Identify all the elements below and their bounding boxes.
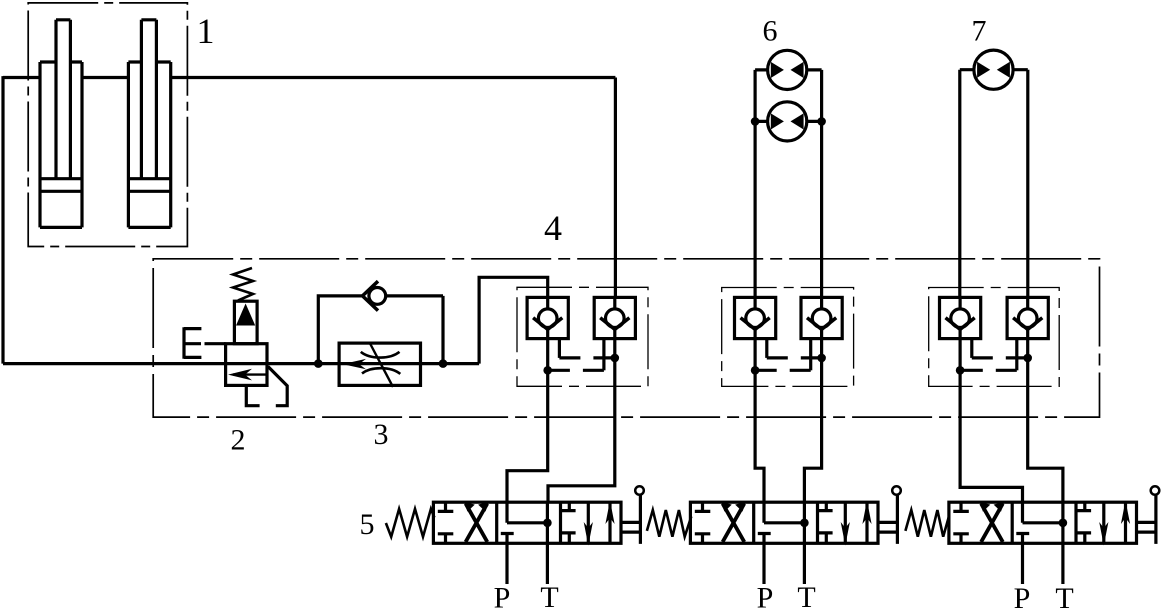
hydraulic motor 6b xyxy=(768,102,807,141)
DCV1 lever xyxy=(621,495,641,544)
DCV3 P stub xyxy=(1021,543,1024,584)
cylinder 1a body xyxy=(40,62,82,227)
svg-text:P: P xyxy=(494,582,511,614)
DCV1 body xyxy=(433,502,621,543)
node pair2 left xyxy=(751,366,760,375)
DCV3 center position paths xyxy=(1016,502,1063,544)
DCV2 right square arrows xyxy=(844,502,847,543)
pilot check valve 3L box xyxy=(940,297,981,338)
throttle valve 3 adjust diagonal xyxy=(370,343,393,387)
svg-text:7: 7 xyxy=(972,15,987,48)
svg-text:1: 1 xyxy=(197,11,215,51)
pilot check pair 3 subplate box xyxy=(929,288,1059,387)
wire right drop to check valve xyxy=(614,78,617,298)
DCV1 crossover arrows xyxy=(466,504,488,542)
node motor 6 right xyxy=(817,117,826,126)
relief valve 2 body xyxy=(226,344,267,386)
enclosure box 1 (cylinders, dash-dot) xyxy=(28,3,187,247)
DCV3 spring xyxy=(905,510,949,537)
pilot check valve 3R ball xyxy=(1026,297,1029,309)
DCV3 T stub xyxy=(1061,543,1064,584)
DCV2 body xyxy=(690,502,878,543)
check valve ball xyxy=(369,288,386,305)
hydraulic motor 6a xyxy=(768,50,807,89)
relief valve 2 solenoid triangle xyxy=(236,304,255,326)
DCV3 right square blocked ports xyxy=(1077,502,1091,543)
DCV2 left square blocked ports xyxy=(695,502,711,543)
DCV2 T stub xyxy=(803,543,806,584)
DCV2 right square blocked ports xyxy=(819,502,833,543)
DCV1 right square arrows xyxy=(587,502,590,543)
cylinder 1b body xyxy=(128,62,170,227)
node pair1 right xyxy=(611,354,620,363)
pilot check valve 2L box xyxy=(735,297,776,338)
pilot check valve 2L ball xyxy=(753,297,756,309)
wire pair2 left down xyxy=(755,339,764,503)
DCV3 left square blocked ports xyxy=(953,502,969,543)
cylinder 1b rod xyxy=(141,20,156,179)
node pair3 right xyxy=(1023,354,1032,363)
wire motor 6 buses xyxy=(755,70,822,298)
pilot check valve 3R seat xyxy=(1013,318,1042,330)
wire pair3 right down xyxy=(1028,339,1063,503)
svg-text:T: T xyxy=(1055,582,1073,614)
DCV2 spring xyxy=(647,510,691,537)
node junction right of throttle xyxy=(439,359,448,368)
pilot check valve 1L seat xyxy=(533,318,562,330)
throttle valve 3 body xyxy=(339,343,420,385)
enclosure box 4 (manifold, dash-dot) xyxy=(153,259,1099,417)
wire pair1 left down xyxy=(507,339,548,503)
pilot check valve 2R seat xyxy=(807,318,836,330)
DCV3 body xyxy=(949,502,1137,543)
DCV2 P stub xyxy=(762,543,765,584)
pilot line 2L (dashed) xyxy=(765,339,768,358)
wire riser to check valve pair 1 xyxy=(479,277,548,363)
svg-text:6: 6 xyxy=(763,15,778,48)
wire pair3 left down xyxy=(960,339,1022,503)
pilot check pair 2 subplate box xyxy=(722,288,854,387)
DCV1 right square blocked ports xyxy=(562,502,576,543)
relief valve 2 E-port symbol xyxy=(184,327,201,359)
DCV3 lever xyxy=(1137,495,1156,544)
pilot line 2R (dashed) xyxy=(809,339,812,371)
wire main pressure line xyxy=(3,362,479,365)
wire motor 7 stubs xyxy=(960,68,1028,71)
throttle valve 3 arrow xyxy=(343,359,367,369)
relief valve 2 internal arrow xyxy=(233,373,266,375)
svg-text:5: 5 xyxy=(360,508,375,541)
node motor 6 left xyxy=(751,117,760,126)
svg-text:P: P xyxy=(757,582,774,614)
DCV2 crossover arrows xyxy=(723,504,745,542)
throttle valve 3 venturi arcs xyxy=(361,352,401,374)
wire bypass loop xyxy=(318,296,443,364)
DCV2 lever xyxy=(878,495,898,544)
svg-text:4: 4 xyxy=(544,208,562,248)
svg-text:T: T xyxy=(797,581,815,614)
DCV1 left square blocked ports xyxy=(438,502,454,543)
svg-text:2: 2 xyxy=(231,424,246,457)
wire pair1 right down xyxy=(548,339,615,502)
hydraulic motor 7 xyxy=(974,50,1013,89)
DCV1 spring xyxy=(386,509,435,537)
DCV2 center position paths xyxy=(758,502,805,544)
pilot check valve 1L box xyxy=(527,297,568,338)
node junction left of throttle xyxy=(314,359,323,368)
pilot check valve 3R box xyxy=(1007,297,1048,338)
node pair1 left xyxy=(543,366,552,375)
pilot check valve 1R box xyxy=(594,297,635,338)
cylinder 1b piston xyxy=(128,179,170,192)
node pair3 left xyxy=(956,366,965,375)
relief valve 2 drain left xyxy=(246,385,259,405)
DCV1 center position paths xyxy=(501,502,548,544)
wire motor 7 buses xyxy=(960,70,1028,298)
pilot line 3L (dashed) xyxy=(970,339,973,358)
relief valve 2 pilot dash to body xyxy=(205,342,226,345)
pilot check valve 2R box xyxy=(801,297,842,338)
wire cylinder header xyxy=(3,76,615,79)
pilot check valve 1R seat xyxy=(600,318,629,330)
pilot line 3R (dashed) xyxy=(1015,339,1018,371)
pilot line 1L (dashed) xyxy=(558,339,561,358)
wire pair2 right down xyxy=(804,339,821,503)
node pair2 right xyxy=(817,354,826,363)
svg-text:3: 3 xyxy=(374,418,389,451)
relief valve 2 drain diagonal xyxy=(268,367,287,406)
pilot check valve 3L ball xyxy=(958,297,961,309)
cylinder 1a piston xyxy=(40,179,82,192)
pilot check valve 1L ball xyxy=(546,297,549,309)
relief valve 2 solenoid box xyxy=(234,301,257,344)
pilot check valve 3L seat xyxy=(946,318,975,330)
DCV3 right square arrows xyxy=(1102,502,1105,543)
pilot check valve 2L seat xyxy=(741,318,770,330)
pilot check valve 2R ball xyxy=(820,297,823,309)
check valve seat xyxy=(363,281,379,310)
cylinder 1a rod xyxy=(56,20,70,179)
wire motor 6 stubs xyxy=(755,70,822,122)
directional valve DCV3 xyxy=(905,486,1159,614)
wire left drop xyxy=(1,76,4,364)
svg-text:T: T xyxy=(540,581,558,614)
DCV1 T stub xyxy=(546,543,549,584)
DCV3 crossover arrows xyxy=(981,504,1003,542)
relief valve 2 spring xyxy=(233,268,253,301)
directional valve DCV2 xyxy=(647,486,901,614)
pilot check pair 1 subplate box xyxy=(517,287,648,386)
svg-text:P: P xyxy=(1014,582,1031,614)
pilot check valve 1R ball xyxy=(613,297,616,309)
directional valve 5 (DCV1) xyxy=(360,486,644,614)
DCV1 P stub xyxy=(505,543,508,584)
pilot line 1R (dashed) xyxy=(602,339,605,371)
